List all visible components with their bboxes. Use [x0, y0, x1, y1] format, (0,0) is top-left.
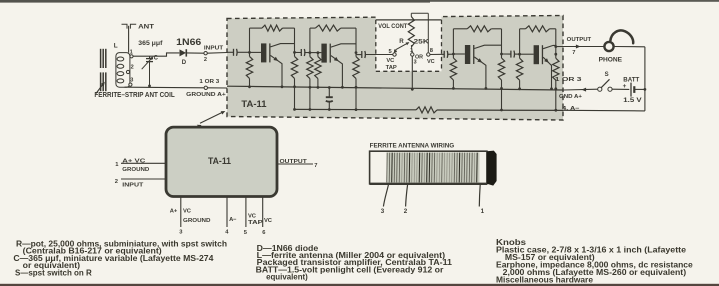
- svg-text:VC: VC: [264, 218, 273, 224]
- svg-text:GROUND: GROUND: [183, 218, 211, 224]
- svg-text:S—spst switch on R: S—spst switch on R: [15, 269, 92, 278]
- svg-text:1 OR 3: 1 OR 3: [555, 77, 583, 83]
- svg-text:1.5 V: 1.5 V: [623, 98, 641, 104]
- svg-text:4, A−: 4, A−: [562, 106, 580, 112]
- svg-text:TAP: TAP: [386, 65, 397, 71]
- svg-text:TA-11: TA-11: [241, 99, 266, 109]
- svg-text:7: 7: [572, 50, 575, 56]
- svg-text:OUTPUT: OUTPUT: [280, 159, 308, 165]
- svg-text:VC: VC: [183, 208, 192, 214]
- svg-text:A+: A+: [170, 208, 178, 214]
- svg-text:2: 2: [115, 179, 118, 185]
- svg-text:VC: VC: [427, 59, 435, 65]
- svg-text:7: 7: [314, 163, 317, 169]
- svg-text:TAP: TAP: [248, 220, 263, 226]
- svg-text:R: R: [399, 38, 404, 45]
- svg-text:VC: VC: [248, 214, 257, 220]
- svg-text:365 μμf: 365 μμf: [138, 41, 163, 47]
- svg-text:ANT: ANT: [138, 24, 154, 30]
- svg-text:PHONE: PHONE: [599, 58, 623, 64]
- svg-text:GND A+: GND A+: [559, 94, 583, 100]
- svg-text:2: 2: [204, 57, 207, 63]
- svg-text:S: S: [605, 72, 609, 78]
- svg-text:FERRITE–STRIP ANT COIL: FERRITE–STRIP ANT COIL: [94, 90, 175, 99]
- svg-text:L: L: [114, 43, 118, 50]
- svg-text:Miscellaneous hardware: Miscellaneous hardware: [496, 275, 593, 284]
- svg-text:GROUND: GROUND: [122, 167, 149, 173]
- svg-text:VOL CONT: VOL CONT: [378, 24, 407, 30]
- svg-text:1: 1: [410, 48, 413, 54]
- svg-text:3: 3: [130, 78, 133, 84]
- svg-text:GROUND A+: GROUND A+: [186, 92, 226, 98]
- svg-text:INPUT: INPUT: [122, 182, 144, 188]
- svg-text:A−: A−: [229, 217, 237, 223]
- svg-text:1 OR 3: 1 OR 3: [199, 79, 220, 85]
- svg-text:1: 1: [130, 49, 133, 55]
- svg-text:+: +: [623, 83, 627, 90]
- svg-text:1N66: 1N66: [176, 37, 201, 48]
- svg-text:FERRITE ANTENNA WIRING: FERRITE ANTENNA WIRING: [370, 142, 455, 149]
- svg-text:A+ VC: A+ VC: [122, 158, 146, 164]
- svg-text:equivalent): equivalent): [266, 273, 308, 282]
- svg-text:VC: VC: [386, 58, 395, 64]
- svg-text:2: 2: [131, 65, 134, 71]
- svg-text:INPUT: INPUT: [204, 45, 224, 51]
- svg-text:OUTPUT: OUTPUT: [567, 37, 592, 43]
- svg-text:3: 3: [414, 60, 417, 66]
- svg-text:TA-11: TA-11: [208, 156, 231, 166]
- svg-text:25K: 25K: [414, 38, 430, 45]
